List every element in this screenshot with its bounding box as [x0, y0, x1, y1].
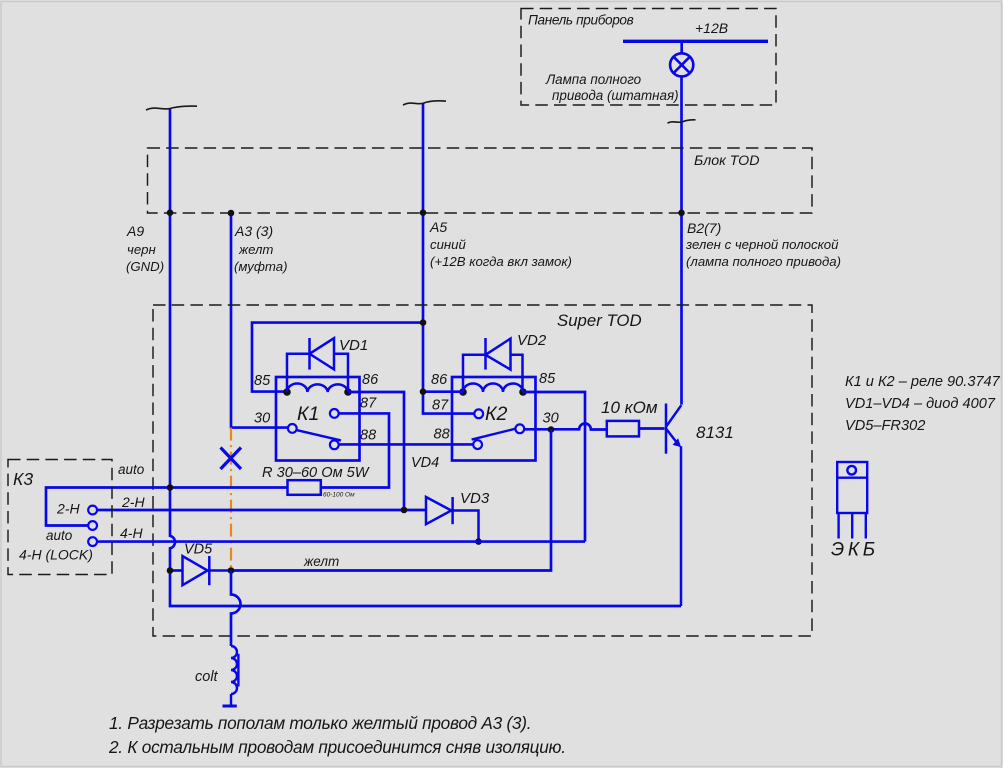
svg-text:(муфта): (муфта): [234, 259, 287, 274]
svg-text:4-Н: 4-Н: [120, 525, 143, 541]
svg-text:2-Н: 2-Н: [121, 494, 145, 510]
wire: resistor to transistor base: [639, 427, 665, 430]
svg-text:auto: auto: [46, 528, 73, 543]
K3 contact 4-Н: [88, 537, 97, 546]
svg-text:А5: А5: [429, 219, 447, 235]
K1 switch blade 30-88: [288, 424, 297, 433]
svg-text:(+12В когда вкл замок): (+12В когда вкл замок): [430, 254, 572, 269]
svg-text:87: 87: [360, 396, 377, 412]
svg-text:VD3: VD3: [460, 490, 490, 507]
wire: K2 30 to base resistor with hump over riser: [524, 423, 607, 429]
svg-text:Панель приборов: Панель приборов: [528, 13, 634, 28]
wire A9 (GND) with return path: [170, 109, 681, 606]
K2 coil terminal dot 86: [459, 388, 467, 396]
junction dot B2 / Блок TOD edge: [678, 210, 685, 217]
svg-text:черн: черн: [127, 242, 156, 257]
svg-text:VD5–FR302: VD5–FR302: [845, 418, 925, 434]
cut wire continuation (orange dash-dot, yellow wire lower half): [230, 428, 232, 569]
svg-text:синий: синий: [430, 237, 467, 252]
junction dot A5/86 link: [420, 388, 427, 395]
svg-text:1. Разрезать пополам только же: 1. Разрезать пополам только желтый прово…: [109, 713, 531, 733]
junction dot A3 / Блок TOD edge: [228, 210, 235, 217]
svg-text:10 кОм: 10 кОм: [601, 398, 658, 417]
svg-text:85: 85: [539, 371, 556, 387]
break mark on B2 wire: [668, 120, 696, 123]
transistor package ЭКБ (TO-220): [837, 462, 867, 539]
svg-text:+12В: +12В: [695, 20, 728, 36]
svg-text:R 30–60 Ом 5W: R 30–60 Ом 5W: [262, 465, 370, 481]
diode VD3: [426, 497, 479, 542]
svg-text:привода (штатная): привода (штатная): [552, 88, 679, 103]
junction dot A9 / VD5: [167, 567, 174, 574]
svg-text:VD1: VD1: [339, 337, 368, 354]
wire: A9 to VD5: [170, 569, 183, 572]
wire: +12V rail: [623, 40, 768, 43]
diode VD1 with loop over K1 coil: [287, 338, 348, 392]
junction dot loop/A5: [420, 319, 427, 326]
svg-text:К3: К3: [13, 469, 33, 489]
junction dot VD3 / 4-Н: [475, 538, 482, 545]
connector K3 box: [8, 460, 112, 575]
K1 coil: [287, 384, 348, 392]
break mark on A5 top: [403, 101, 446, 105]
K1 contact 87 and wire to resistor R: [330, 409, 339, 418]
TOD unit box (Блок TOD): [148, 148, 813, 213]
svg-text:60-100 Ом: 60-100 Ом: [323, 492, 355, 499]
svg-text:86: 86: [431, 372, 448, 388]
svg-text:30: 30: [254, 411, 270, 427]
wire A3 (yellow) upper half to K1 pin 30: [231, 213, 289, 428]
wire 4-Н from К3 with hop over A9: [97, 540, 585, 543]
relay K1 box: [276, 377, 360, 461]
K2 switch blade 88-30: [473, 440, 482, 449]
inductor colt: [223, 646, 239, 706]
junction dot VD4 riser / 2-Н: [401, 507, 408, 514]
K1 coil terminal dot 85: [283, 388, 291, 396]
svg-text:2. К остальным проводам присое: 2. К остальным проводам присоединится сн…: [108, 737, 566, 757]
svg-text:VD5: VD5: [184, 542, 213, 558]
svg-text:К2: К2: [485, 403, 507, 425]
junction dot K2 30 / желт riser: [548, 426, 555, 433]
svg-text:8131: 8131: [696, 423, 734, 442]
wire 2-Н from К3 to VD3: [97, 509, 426, 512]
wire: K1 86 down to 2-Н line: [348, 392, 404, 510]
cut mark X on yellow wire: [221, 448, 242, 470]
svg-text:VD1–VD4 – диод 4007: VD1–VD4 – диод 4007: [845, 396, 996, 412]
K2 coil terminal dot 85: [519, 388, 527, 396]
Super TOD box: [153, 305, 812, 636]
svg-text:желт: желт: [238, 242, 273, 257]
wire: B2 lamp to collector: [680, 77, 683, 405]
wire: K2 85 to 4-Н riser: [523, 392, 585, 542]
svg-text:Лампа полного: Лампа полного: [545, 72, 642, 87]
diode VD2 with loop over K2 coil: [463, 338, 523, 392]
transistor emitter arrow: [673, 438, 682, 447]
K1 coil terminal dot 86: [344, 388, 352, 396]
lamp HL (лампа полного привода): [670, 41, 693, 76]
svg-text:VD4: VD4: [411, 455, 439, 471]
svg-text:К1: К1: [297, 403, 319, 425]
svg-text:Э К Б: Э К Б: [831, 540, 875, 561]
svg-text:VD2: VD2: [517, 332, 547, 349]
svg-text:colt: colt: [195, 669, 219, 685]
junction dot auto/A9: [167, 484, 174, 491]
svg-text:85: 85: [254, 373, 271, 389]
K3 contact auto: [88, 521, 97, 530]
resistor 10 кОм: [607, 421, 639, 437]
svg-text:А9: А9: [126, 223, 144, 239]
K3 contact 2-Н: [88, 506, 97, 515]
svg-text:30: 30: [543, 411, 559, 427]
svg-text:4-Н (LOCK): 4-Н (LOCK): [19, 547, 93, 563]
transistor VT 8131: [666, 404, 681, 607]
wire: K1 88 to K2 88: [339, 443, 474, 446]
wire: A5 to K2 coil 86: [423, 390, 463, 393]
wire to clutch coil with hop over GND line: [231, 571, 241, 647]
wire: K1 85 loop to A5: [252, 323, 423, 392]
svg-text:желт: желт: [303, 554, 339, 569]
svg-text:2-Н: 2-Н: [56, 501, 80, 517]
junction dot желт / colt: [228, 567, 235, 574]
diode VD5: [183, 556, 232, 585]
svg-text:auto: auto: [118, 462, 145, 477]
K2 coil: [463, 384, 523, 392]
svg-text:В2(7): В2(7): [687, 220, 721, 236]
svg-text:87: 87: [432, 398, 449, 414]
relay K2 box: [452, 377, 536, 461]
svg-text:зелен с черной полоской: зелен с черной полоской: [685, 237, 839, 252]
instrument panel box (Панель приборов): [521, 9, 776, 106]
svg-text:Блок TOD: Блок TOD: [694, 153, 759, 169]
wire желт: VD5 to K2 30 riser: [231, 430, 551, 571]
svg-text:(GND): (GND): [126, 259, 164, 274]
svg-text:Super TOD: Super TOD: [557, 311, 642, 330]
K2 contact 87: [474, 409, 483, 418]
break mark on A9 top: [146, 106, 197, 110]
svg-text:К1 и К2 – реле 90.3747: К1 и К2 – реле 90.3747: [845, 374, 1001, 390]
resistor R 30-60 Ом 5W: [288, 480, 321, 495]
svg-text:88: 88: [434, 427, 450, 443]
svg-text:86: 86: [362, 372, 379, 388]
svg-text:88: 88: [360, 428, 376, 444]
junction dot A5 / Блок TOD edge: [420, 209, 427, 216]
svg-text:А3 (3): А3 (3): [234, 223, 273, 239]
junction dot A9 / Блок TOD edge: [167, 209, 174, 216]
svg-text:(лампа полного привода): (лампа полного привода): [686, 254, 841, 269]
wire: auto contact to resistor R via A9: [46, 488, 288, 526]
wire A5: [423, 104, 474, 414]
